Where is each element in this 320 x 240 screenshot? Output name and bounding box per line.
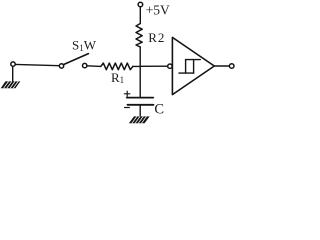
capacitor C top plate	[127, 97, 153, 99]
wire capacitor to ground	[139, 106, 141, 118]
hysteresis symbol	[179, 60, 200, 74]
wire +5V to R2	[139, 7, 141, 24]
output terminal circle	[229, 64, 234, 69]
comparator U1 triangle	[172, 37, 214, 94]
svg-text:R1: R1	[111, 70, 124, 85]
resistor R1	[101, 63, 133, 70]
svg-text:S1W: S1W	[72, 38, 97, 54]
svg-text:C: C	[154, 101, 164, 117]
svg-text:R2: R2	[148, 30, 165, 45]
polarity plus sign	[124, 91, 129, 96]
input terminal circle	[168, 64, 172, 68]
polarity minus sign	[125, 107, 130, 109]
ground (left)	[1, 81, 21, 88]
+5V terminal circle	[138, 2, 143, 7]
wire terminal to switch	[15, 64, 59, 65]
switch S1W right contact	[83, 63, 87, 67]
capacitor C bottom plate	[128, 104, 154, 106]
resistor R2	[136, 24, 142, 48]
wire ground stub to terminal	[12, 66, 14, 82]
terminal circle (left)	[11, 62, 15, 66]
wire R2 to node and down to capacitor	[139, 47, 141, 97]
wire node to comparator input	[140, 65, 167, 67]
wire comparator output	[214, 65, 229, 67]
switch S1W arm	[63, 54, 88, 65]
wire switch to R1	[87, 65, 101, 68]
svg-text:+5V: +5V	[146, 3, 170, 18]
wire R1 to node	[133, 65, 140, 67]
switch S1W left contact	[59, 64, 63, 68]
ground (bottom)	[129, 116, 150, 123]
